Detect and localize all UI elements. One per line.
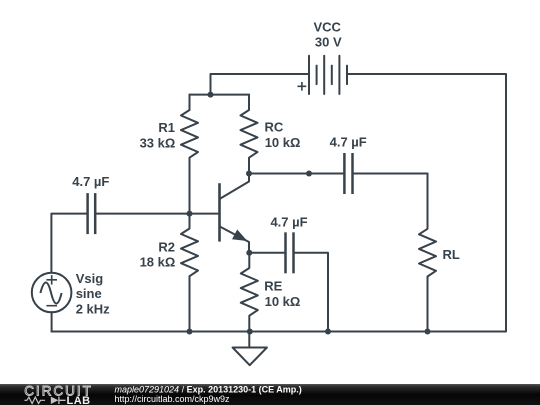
battery plus sign [298, 82, 307, 91]
resistor RC [241, 95, 258, 174]
node emitter junction [246, 250, 252, 256]
node bottom R2 [187, 329, 193, 335]
svg-text:Vsig: Vsig [76, 271, 104, 286]
wire top rail left (node to battery +) [211, 74, 309, 95]
wire C3 right down to bottom rail [295, 253, 328, 332]
label R1 value [140, 120, 176, 150]
logo diode [51, 397, 66, 404]
svg-text:4.7 µF: 4.7 µF [270, 214, 307, 229]
label Vsig value [76, 271, 110, 316]
footer credit line [115, 385, 302, 404]
wire C1 right to base node [96, 213, 189, 215]
wire Vsig bottom [51, 312, 53, 331]
svg-text:RE: RE [264, 279, 282, 294]
svg-text:sine: sine [76, 286, 102, 301]
svg-text:18 kΩ: 18 kΩ [140, 255, 176, 270]
wire collector row [249, 173, 343, 175]
svg-text:RL: RL [443, 247, 460, 262]
battery V1 VCC [309, 56, 347, 94]
svg-text:R2: R2 [158, 239, 175, 254]
svg-text:2 kHz: 2 kHz [76, 301, 110, 316]
resistor RL [419, 174, 436, 332]
svg-text:VCC: VCC [313, 19, 341, 34]
source Vsig [32, 273, 72, 313]
wire C1 left to source [51, 214, 86, 273]
node base [187, 211, 193, 217]
logo resistor squiggle [24, 397, 45, 403]
node bottom RL [425, 329, 431, 335]
wire base [190, 213, 219, 215]
wire top rail right (battery - to right edge down to bottom rail) [51, 74, 506, 332]
node collector junction [246, 171, 252, 177]
node bottom RE [247, 329, 253, 335]
svg-text:R1: R1 [158, 120, 175, 135]
node bottom C3 [325, 329, 331, 335]
wire R1-RC top bar [190, 94, 250, 96]
svg-text:30 V: 30 V [315, 35, 342, 50]
capacitor C2 output [344, 153, 352, 194]
resistor R1 [181, 95, 198, 214]
svg-text:33 kΩ: 33 kΩ [140, 135, 176, 150]
node top junction [208, 92, 214, 98]
svg-text:4.7 µF: 4.7 µF [72, 174, 109, 189]
wire C2 to RL [354, 173, 428, 175]
label RE value [264, 279, 300, 309]
label RC value [265, 120, 301, 150]
transistor Q1 [220, 174, 250, 253]
label VCC value [313, 19, 342, 49]
svg-text:4.7 µF: 4.7 µF [330, 134, 367, 149]
svg-text:10 kΩ: 10 kΩ [265, 135, 301, 150]
wire emitter row [249, 252, 284, 254]
svg-text:10 kΩ: 10 kΩ [265, 294, 301, 309]
node output tap [306, 171, 312, 177]
svg-text:RC: RC [265, 120, 284, 135]
svg-text:LAB: LAB [67, 395, 91, 405]
svg-text:http://circuitlab.com/ckp9w9z: http://circuitlab.com/ckp9w9z [115, 394, 231, 404]
ground [233, 332, 267, 366]
capacitor C3 bypass [286, 232, 294, 273]
capacitor C1 input [88, 193, 96, 234]
resistor RE [241, 253, 258, 332]
resistor R2 [181, 214, 198, 332]
label R2 value [140, 239, 176, 269]
